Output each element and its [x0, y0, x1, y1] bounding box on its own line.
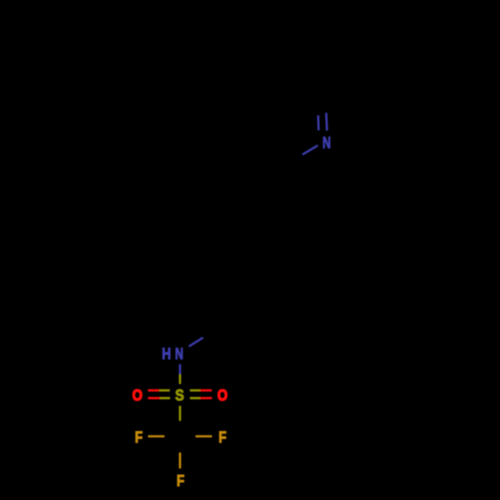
svg-text:H: H — [162, 346, 171, 364]
S-C4 bond, S half — [179, 406, 181, 421]
pyridine N-C2 single bond, N half — [302, 145, 317, 154]
pyridine C=N double bond, N half (main line) — [325, 113, 328, 131]
C3-N(H) bond, N half — [189, 338, 203, 347]
pyridine C=N double bond, N half (inner line) — [317, 115, 320, 130]
right S=O lower line, O half — [200, 397, 212, 399]
C4-F right bond, F half — [196, 435, 213, 437]
svg-text:O: O — [132, 387, 142, 404]
N-S bond, S half — [179, 374, 181, 384]
svg-text:F: F — [219, 429, 227, 447]
right S=O upper line, O half — [200, 389, 212, 391]
left S=O upper line, S half — [159, 389, 170, 391]
svg-text:F: F — [177, 473, 185, 491]
left S=O upper line, O half — [148, 389, 159, 391]
N-S bond, N half — [179, 364, 181, 374]
svg-text:S: S — [175, 388, 184, 405]
svg-text:N: N — [175, 344, 183, 362]
svg-text:N: N — [323, 133, 331, 151]
left S=O lower line, O half — [148, 397, 160, 399]
C4-F bottom bond, F half — [179, 453, 181, 469]
left S=O lower line, S half — [160, 397, 170, 399]
right S=O lower line, S half — [190, 397, 200, 399]
C4-F left bond, F half — [148, 435, 165, 437]
svg-text:F: F — [135, 429, 143, 447]
right S=O upper line, S half — [190, 389, 200, 391]
svg-text:O: O — [217, 387, 227, 404]
